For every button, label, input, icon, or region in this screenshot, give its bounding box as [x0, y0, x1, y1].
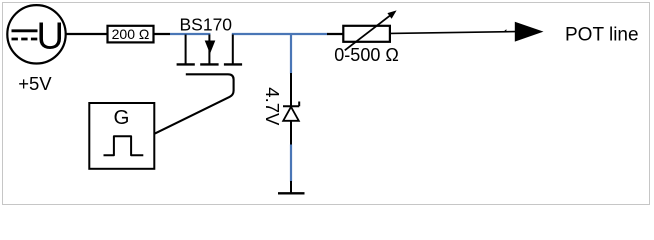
svg-text:0-500 Ω: 0-500 Ω — [334, 45, 399, 65]
svg-text:+5V: +5V — [18, 73, 52, 94]
svg-text:POT line: POT line — [565, 25, 639, 46]
svg-text:BS170: BS170 — [180, 14, 233, 34]
svg-text:200 Ω: 200 Ω — [112, 26, 150, 42]
svg-text:4.7V: 4.7V — [262, 87, 283, 126]
svg-text:G: G — [114, 106, 130, 129]
svg-text:U: U — [37, 16, 64, 58]
